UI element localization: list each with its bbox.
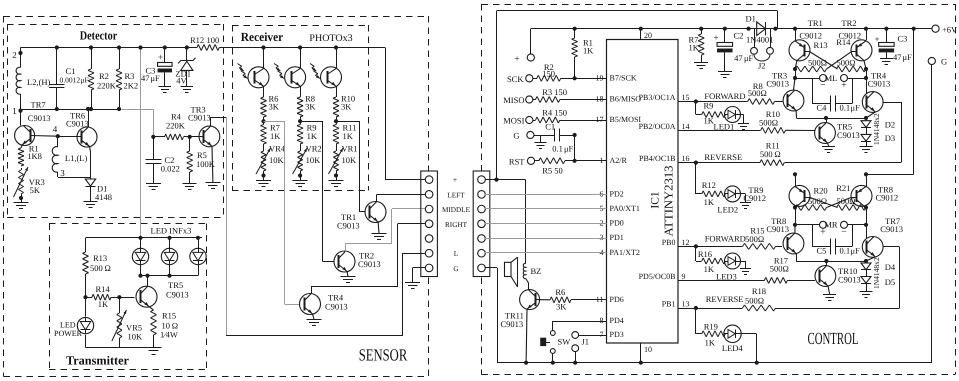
potentiometer VR5 10K	[119, 297, 121, 311]
ground R5	[183, 183, 197, 185]
terminal +6V	[912, 27, 916, 31]
svg-text:ML: ML	[825, 73, 838, 83]
svg-text:220K: 220K	[97, 81, 117, 91]
svg-text:FORWARD: FORWARD	[704, 91, 745, 101]
resistor R4 150	[533, 120, 536, 122]
wire L signal to PA1	[485, 252, 607, 254]
ground sensor G	[405, 282, 420, 284]
diode D5 1N4148	[866, 270, 868, 277]
ground VR3	[19, 196, 23, 200]
ground C2	[146, 183, 161, 185]
wire bridge2 V+ riser	[866, 174, 914, 176]
diode D1 1N4001	[746, 27, 750, 31]
wire TR11 emitter to rail	[525, 309, 528, 363]
potentiometer VR1 10K	[333, 151, 336, 152]
svg-text:R15: R15	[162, 311, 176, 321]
wire junction1 to TR4 base (gray)	[264, 121, 285, 123]
node 1	[18, 109, 22, 113]
wire TR4 emitter ground	[313, 314, 314, 320]
LED4	[724, 325, 741, 342]
svg-text:μF: μF	[744, 53, 754, 63]
svg-text:LED2: LED2	[717, 205, 738, 215]
svg-text:C9013: C9013	[501, 319, 524, 329]
wire TR1 collector to LEFT pin	[376, 194, 378, 202]
branch R16 LED3	[695, 246, 697, 261]
capacitor C5 0.1uF	[812, 225, 814, 247]
branch R9 LED1	[695, 102, 697, 115]
svg-text:Transmitter: Transmitter	[66, 354, 129, 368]
svg-text:3K: 3K	[269, 102, 280, 112]
svg-text:2K2: 2K2	[124, 81, 139, 91]
wire emitter bus bridge1	[797, 118, 867, 120]
svg-text:REVERSE: REVERSE	[704, 152, 742, 162]
resistor R18 500	[743, 305, 745, 308]
wire strip2 + pin feed	[494, 178, 498, 182]
svg-text:C5: C5	[817, 246, 827, 256]
phototransistor PT2	[298, 45, 302, 49]
svg-text:PD3: PD3	[610, 330, 624, 339]
wire R11 riser to TR4 base	[784, 162, 901, 164]
svg-text:0.1: 0.1	[840, 246, 851, 256]
svg-text:PA1/XT2: PA1/XT2	[610, 248, 640, 257]
diode D4 1N4148	[866, 261, 868, 263]
terminal MISO	[526, 96, 533, 103]
connector strip sensor side	[421, 171, 438, 277]
svg-text:7: 7	[600, 330, 604, 339]
wire TR8b emitter to bus	[796, 253, 798, 261]
svg-text:ATTINY2313: ATTINY2313	[662, 166, 676, 237]
svg-text:14: 14	[682, 122, 690, 131]
svg-text:PB2/OC0A: PB2/OC0A	[639, 122, 676, 131]
wire TR4 collector to RIGHT pin	[311, 286, 313, 294]
svg-text:8: 8	[600, 316, 604, 325]
wire MIDDLE signal to PA0	[485, 208, 607, 210]
svg-text:150: 150	[542, 69, 555, 79]
svg-text:A2/R: A2/R	[610, 156, 628, 165]
svg-text:4148: 4148	[95, 192, 112, 202]
svg-text:10K: 10K	[342, 155, 358, 165]
resistor R7 1K	[263, 121, 265, 124]
svg-text:L1,(L): L1,(L)	[65, 153, 88, 163]
diode D2 1N4148	[866, 118, 868, 121]
svg-text:MISO: MISO	[503, 95, 524, 105]
resistor R15 10ohm 1/4W	[149, 307, 153, 310]
svg-text:6: 6	[600, 189, 604, 198]
wire TR3 emitter to bus	[795, 110, 797, 118]
ground LED1	[741, 114, 744, 116]
svg-text:R21: R21	[836, 183, 850, 193]
svg-text:G: G	[453, 265, 458, 273]
capacitor C3 47uF	[884, 27, 888, 31]
ground D3	[860, 146, 873, 148]
connector strip control side	[473, 171, 490, 277]
svg-text:+: +	[841, 80, 847, 91]
capacitor C2 47uF electrolytic	[723, 27, 727, 31]
svg-text:4: 4	[53, 124, 58, 134]
svg-text:R2: R2	[99, 71, 109, 81]
svg-text:B6/MISO: B6/MISO	[610, 95, 642, 104]
svg-text:L2,(H): L2,(H)	[27, 77, 51, 87]
wire bridge right vertical ML	[864, 27, 868, 31]
coil L2(H)	[16, 67, 20, 94]
terminal G programming	[527, 131, 534, 138]
ground TR10	[823, 294, 836, 296]
resistor R5 100K	[189, 137, 191, 151]
LED3	[725, 253, 741, 269]
ground transmitter	[146, 347, 162, 349]
svg-text:C9013: C9013	[166, 290, 189, 300]
svg-text:500Ω: 500Ω	[748, 88, 767, 98]
svg-text:MR: MR	[824, 220, 838, 230]
svg-text:D4: D4	[885, 262, 896, 272]
svg-text:5K: 5K	[30, 185, 41, 195]
svg-text:10K: 10K	[128, 332, 144, 342]
svg-text:PD6: PD6	[610, 295, 624, 304]
zener ZD1 4V	[185, 45, 189, 49]
wire TR3 collector output	[210, 117, 212, 126]
svg-text:500Ω: 500Ω	[808, 58, 827, 68]
ground D1	[84, 201, 98, 203]
wire TR3 emitter	[211, 146, 214, 182]
capacitor C4 0.1uF	[812, 78, 814, 104]
wire TR4 emitter to bus	[866, 112, 875, 118]
svg-text:R6: R6	[555, 287, 565, 297]
potentiometer VR2 10K	[298, 151, 301, 152]
svg-text:R14: R14	[96, 284, 111, 294]
resistor R13 500ohm	[83, 252, 86, 253]
svg-text:220K: 220K	[166, 121, 186, 131]
svg-text:1K: 1K	[704, 197, 715, 207]
capacitor C3 47uF	[163, 45, 167, 49]
detector block dashed border	[7, 24, 223, 26]
svg-text:D1: D1	[746, 14, 756, 24]
wire BZ to TR11 collector	[526, 279, 529, 284]
ground LED2	[741, 193, 746, 195]
resistor R7 1K	[699, 27, 703, 31]
svg-text:3: 3	[600, 233, 604, 242]
svg-text:47: 47	[141, 73, 150, 83]
svg-text:Receiver: Receiver	[241, 30, 284, 44]
svg-text:FORWARD: FORWARD	[705, 233, 746, 243]
ground C3 control	[880, 58, 893, 60]
infrared LED3	[196, 236, 200, 240]
wire transmitter ground bus	[85, 335, 87, 348]
wire detector/receiver V+ rail	[21, 47, 198, 49]
resistor R9 1K	[300, 121, 302, 124]
svg-text:10: 10	[644, 345, 652, 354]
phototransistor PT3	[334, 45, 338, 49]
svg-text:C9013: C9013	[837, 130, 860, 140]
ground LED3	[741, 261, 746, 263]
svg-text:C9013: C9013	[766, 224, 789, 234]
svg-text:R13: R13	[814, 40, 828, 50]
svg-text:+: +	[820, 227, 826, 238]
svg-text:J2: J2	[758, 61, 766, 71]
resistor R19 1K	[702, 331, 703, 334]
svg-text:LED4: LED4	[722, 343, 744, 353]
svg-text:SCK: SCK	[507, 74, 524, 84]
svg-text:R3: R3	[125, 71, 135, 81]
wire G pin sensor ground	[413, 267, 425, 269]
svg-text:18: 18	[596, 95, 604, 104]
terminal SCK	[526, 75, 533, 82]
svg-text:+: +	[514, 54, 519, 64]
ground VR1	[336, 173, 338, 181]
svg-text:17: 17	[596, 115, 604, 124]
svg-text:C9013: C9013	[28, 113, 51, 123]
wire junction3 to TR1 base	[336, 121, 360, 123]
infrared LED2	[167, 236, 171, 240]
svg-text:C2: C2	[734, 31, 744, 41]
transistor TR9 C9012	[789, 185, 810, 206]
svg-text:RST: RST	[509, 156, 525, 166]
resistor R15 500	[743, 243, 745, 246]
svg-text:J1: J1	[582, 337, 590, 347]
wire detector output to L pin	[226, 335, 403, 337]
svg-text:1K: 1K	[343, 131, 354, 141]
phototransistor PT1	[261, 45, 265, 49]
svg-text:500Ω: 500Ω	[759, 118, 778, 128]
resistor R4 220K	[151, 135, 155, 139]
resistor R10 3K	[333, 97, 336, 98]
wire TR2 emitter ground	[346, 272, 349, 277]
node 4	[56, 134, 60, 138]
ground TR5 bridge	[822, 146, 835, 148]
svg-text:20: 20	[644, 31, 652, 40]
capacitor C1	[56, 48, 58, 85]
transistor TR1 C9012	[789, 40, 810, 61]
terminal G control	[928, 57, 935, 64]
wire cross coupling bases	[810, 52, 838, 69]
terminal RST	[527, 157, 534, 164]
resistor R1 1K pullup	[573, 27, 577, 31]
node VR5 tap	[117, 295, 121, 299]
wire TR7 emitter to bus	[866, 257, 875, 261]
svg-text:1K: 1K	[270, 131, 281, 141]
svg-text:3K: 3K	[341, 102, 352, 112]
svg-text:PB0: PB0	[662, 238, 676, 247]
svg-text:C3: C3	[898, 34, 908, 44]
svg-text:C9013: C9013	[188, 113, 211, 123]
svg-text:R16: R16	[698, 249, 712, 259]
svg-text:R3 150: R3 150	[542, 87, 567, 97]
wire V+ top bypass rail	[496, 11, 498, 180]
wire buzzer V+ riser	[525, 180, 527, 264]
svg-text:C9013: C9013	[358, 259, 381, 269]
svg-text:12: 12	[682, 238, 690, 247]
svg-text:D2: D2	[885, 120, 895, 130]
svg-text:CONTROL: CONTROL	[808, 329, 859, 348]
node junction 3	[334, 119, 338, 123]
svg-text:μF: μF	[564, 144, 574, 154]
svg-text:MOSI: MOSI	[503, 116, 524, 126]
svg-text:C4: C4	[817, 103, 828, 113]
svg-text:L: L	[454, 250, 458, 258]
svg-text:C9012: C9012	[876, 192, 899, 202]
svg-text:MIDDLE: MIDDLE	[442, 206, 471, 214]
svg-text:μF: μF	[81, 76, 89, 85]
pin 10 GND	[640, 343, 642, 363]
svg-text:R9: R9	[704, 101, 714, 111]
wire L1 to D1	[57, 172, 59, 177]
svg-text:15: 15	[682, 93, 690, 102]
svg-text:R5 50: R5 50	[542, 166, 563, 176]
svg-text:G: G	[513, 131, 519, 141]
switch SW	[553, 321, 607, 323]
wire bridge left vertical ML	[793, 27, 797, 31]
wire L pin drop	[403, 253, 425, 255]
svg-text:3: 3	[60, 168, 65, 178]
svg-text:0.022: 0.022	[161, 164, 180, 174]
wire LEFT signal to PD2	[485, 194, 607, 196]
svg-text:BZ: BZ	[531, 266, 542, 276]
svg-text:13: 13	[682, 300, 690, 309]
svg-text:PD2: PD2	[610, 189, 624, 198]
svg-text:16: 16	[682, 154, 690, 163]
svg-text:1: 1	[600, 156, 604, 165]
resistor R6 3K	[261, 97, 264, 98]
wire G terminal to bottom rail	[931, 65, 933, 363]
svg-text:0.1: 0.1	[552, 144, 563, 154]
resistor R11 500	[760, 160, 762, 163]
wire pin5 to PD1	[485, 238, 607, 240]
svg-text:REVERSE: REVERSE	[706, 294, 744, 304]
svg-text:C9013: C9013	[766, 79, 789, 89]
transmitter block dashed border	[49, 223, 206, 225]
svg-text:VR1: VR1	[342, 144, 358, 154]
resistor R9 1K	[702, 112, 703, 115]
svg-text:500Ω: 500Ω	[745, 234, 764, 244]
svg-text:μF: μF	[851, 246, 861, 256]
potentiometer VR3 5K	[18, 170, 21, 172]
svg-text:1N4001: 1N4001	[746, 35, 773, 45]
svg-text:3K: 3K	[305, 102, 316, 112]
svg-text:R4 150: R4 150	[542, 108, 567, 118]
svg-text:500 Ω: 500 Ω	[760, 149, 781, 159]
ground D5	[860, 291, 873, 293]
svg-text:19: 19	[596, 73, 604, 82]
svg-text:C9013: C9013	[838, 275, 861, 285]
svg-text:TR5: TR5	[168, 280, 183, 290]
diode D3 1N4148	[866, 127, 868, 134]
diode D1 4148	[89, 147, 92, 153]
jumper J2	[754, 29, 756, 48]
svg-text:500Ω: 500Ω	[770, 264, 789, 274]
ground TR3 emitter	[205, 182, 220, 184]
svg-text:1N4148x2: 1N4148x2	[872, 113, 881, 145]
potentiometer VR4 10K	[261, 151, 264, 152]
node junction 1	[261, 119, 265, 123]
svg-text:C1: C1	[66, 66, 76, 76]
resistor R11 1K	[336, 121, 338, 124]
svg-text:PB1: PB1	[662, 300, 676, 309]
svg-text:−: −	[820, 80, 826, 91]
wire control ground rail	[497, 362, 932, 364]
LED2	[725, 186, 741, 202]
capacitor C1 0.1uF	[541, 135, 555, 137]
svg-text:TR1: TR1	[808, 18, 823, 28]
svg-text:B5/MOSI: B5/MOSI	[610, 115, 642, 124]
terminal MOSI	[526, 116, 533, 123]
svg-text:1K: 1K	[705, 338, 716, 348]
svg-text:VR4: VR4	[269, 144, 286, 154]
svg-text:C9012: C9012	[799, 30, 822, 40]
svg-text:+: +	[453, 176, 458, 185]
svg-text:500Ω: 500Ω	[837, 58, 856, 68]
wire TR1 emitter ground	[377, 222, 380, 233]
node 2	[18, 51, 22, 55]
svg-text:Detector: Detector	[80, 29, 118, 43]
svg-text:G: G	[941, 57, 947, 67]
svg-text:3K: 3K	[556, 302, 567, 312]
svg-text:PB3/OC1A: PB3/OC1A	[639, 93, 676, 102]
pin 20 VCC	[640, 29, 642, 40]
wire detector rail to transmitter rail (gray)	[140, 48, 142, 238]
jumper J1	[579, 335, 607, 337]
LED1	[725, 107, 741, 123]
wire LED4 to bottom rail	[741, 333, 757, 335]
svg-text:500 Ω: 500 Ω	[90, 263, 111, 273]
svg-text:IC1: IC1	[650, 191, 662, 209]
wire node1 to R4 node	[153, 109, 155, 137]
wire G pin to bottom rail	[485, 267, 497, 269]
svg-text:R20: R20	[814, 186, 828, 196]
svg-text:C9013: C9013	[868, 79, 891, 89]
svg-text:R12: R12	[190, 35, 204, 45]
svg-text:SW: SW	[558, 337, 571, 347]
svg-text:9: 9	[682, 272, 686, 281]
svg-text:PA0/XT1: PA0/XT1	[610, 204, 640, 213]
svg-text:−: −	[841, 227, 847, 238]
wire + feed to sensor strip	[385, 48, 387, 180]
wire LED cathode rail	[141, 275, 199, 277]
svg-text:C9013: C9013	[337, 221, 360, 231]
svg-text:4V: 4V	[176, 76, 187, 86]
resistor R16 1K	[702, 258, 703, 261]
svg-text:PD1: PD1	[610, 233, 624, 242]
resistor R2 150	[533, 78, 537, 80]
svg-text:POWER: POWER	[54, 329, 83, 338]
speaker BZ	[505, 262, 512, 276]
resistor R1 1K8	[21, 145, 22, 148]
LED POWER indicator	[85, 297, 87, 316]
svg-text:PB4/OC1B: PB4/OC1B	[639, 154, 675, 163]
wire C1 to RST node	[573, 133, 577, 137]
ground VR2	[300, 173, 302, 181]
svg-text:500Ω: 500Ω	[745, 296, 764, 306]
svg-text:47: 47	[734, 53, 743, 63]
wire TR2 collector to MIDDLE pin (gray)	[345, 243, 347, 251]
node R14	[83, 295, 87, 299]
branch R12 LED2	[695, 163, 697, 194]
svg-text:R19: R19	[704, 322, 718, 332]
resistor R12 1K	[702, 191, 703, 194]
wire R18 riser to TR7 base	[776, 308, 900, 310]
wire bridge right vertical MR	[864, 172, 868, 176]
wire transmitter V+ rail	[86, 237, 203, 239]
svg-text:VR2: VR2	[306, 144, 322, 154]
wire node1 bus	[21, 109, 120, 111]
svg-text:1N4148x2: 1N4148x2	[872, 257, 881, 289]
ground ZD1	[181, 86, 194, 88]
wire cross coupling bases	[810, 198, 838, 208]
svg-text:C9013: C9013	[325, 302, 348, 312]
svg-text:TR2: TR2	[841, 18, 856, 28]
svg-text:+: +	[713, 33, 718, 43]
svg-text:PD5/OC0B: PD5/OC0B	[639, 272, 676, 281]
svg-text:LED INFx3: LED INFx3	[151, 226, 192, 236]
resistor R6 3K	[536, 299, 551, 301]
